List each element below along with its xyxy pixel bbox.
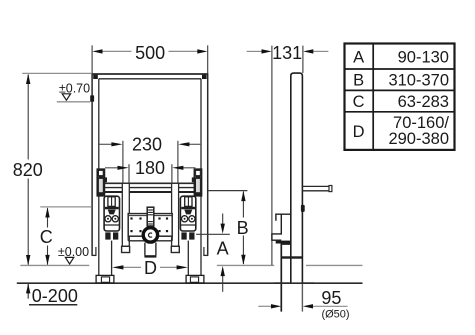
svg-text:C: C bbox=[353, 93, 365, 111]
frame right rail bbox=[207, 73, 209, 255]
svg-text:95: 95 bbox=[321, 288, 341, 308]
side foot tube bbox=[281, 244, 291, 312]
svg-text:B: B bbox=[237, 218, 249, 238]
svg-text:A: A bbox=[217, 239, 229, 259]
plate holes bbox=[130, 217, 168, 232]
drain ring bbox=[143, 228, 157, 242]
svg-text:230: 230 bbox=[132, 135, 162, 155]
svg-text:820: 820 bbox=[13, 160, 43, 180]
dim C ref line bbox=[40, 206, 92, 208]
svg-text:90-130: 90-130 bbox=[398, 48, 449, 66]
wire floor line bbox=[17, 282, 363, 284]
strut right bbox=[172, 183, 179, 246]
dim 180 arrows bbox=[105, 167, 119, 169]
bidet bracket left bbox=[104, 196, 119, 231]
dim 500 ext lines bbox=[91, 45, 93, 73]
dim B line + arrows bbox=[242, 192, 244, 264]
dim 131 line bbox=[247, 50, 263, 52]
svg-text:0-200: 0-200 bbox=[32, 286, 78, 306]
frame top rail bbox=[92, 73, 208, 75]
svg-text:D: D bbox=[144, 258, 157, 278]
side bidet bracket bbox=[272, 214, 291, 240]
svg-text:310-370: 310-370 bbox=[388, 72, 449, 90]
mounting plate bbox=[128, 214, 172, 237]
node ±0.00 finished floor line (right segments) bbox=[217, 264, 274, 266]
svg-text:(Ø50): (Ø50) bbox=[321, 308, 349, 320]
dim 230 ext lines bbox=[122, 141, 124, 183]
dim D line + arrows bbox=[123, 266, 141, 268]
side wall arm bbox=[303, 185, 330, 187]
drain pipe below bbox=[144, 243, 146, 256]
side below-floor pipe right edge bbox=[301, 283, 303, 311]
svg-text:180: 180 bbox=[135, 158, 165, 178]
svg-text:131: 131 bbox=[272, 43, 302, 63]
corner gusset right bbox=[202, 75, 207, 79]
svg-text:500: 500 bbox=[135, 43, 165, 63]
foot tube right bbox=[187, 241, 189, 276]
slotted bracket right bbox=[194, 169, 201, 196]
lower cross rail lines bbox=[99, 182, 201, 184]
dim 0-200 bbox=[27, 284, 29, 299]
dim B top ref line bbox=[208, 190, 248, 192]
svg-text:A: A bbox=[353, 48, 364, 66]
svg-text:290-380: 290-380 bbox=[388, 130, 449, 148]
dim C line bbox=[47, 208, 49, 264]
side front ref line bbox=[271, 46, 273, 265]
svg-text:C: C bbox=[40, 227, 53, 247]
frame left rail bbox=[91, 73, 93, 255]
dim 230 arrows bbox=[100, 143, 113, 145]
foot tube left bbox=[111, 241, 113, 276]
bidet bracket right bbox=[180, 196, 195, 231]
strut left bbox=[122, 183, 129, 246]
dim A upper ref line bbox=[196, 233, 230, 235]
slotted bracket left bbox=[97, 169, 104, 196]
foot plate left bbox=[96, 275, 114, 283]
dim 180 ext lines bbox=[128, 164, 130, 183]
side rail bbox=[291, 73, 303, 283]
dim 820 ext line bbox=[22, 72, 92, 74]
dim 95 bbox=[258, 305, 271, 307]
dim 820 line bbox=[27, 75, 29, 265]
svg-text:D: D bbox=[353, 123, 365, 141]
side 131 right ext bbox=[302, 46, 304, 73]
node ±0.00 finished floor line (left segment) bbox=[20, 264, 89, 266]
threaded rod bbox=[147, 207, 154, 226]
dim 500 line bbox=[102, 50, 132, 52]
side foot cross band bbox=[281, 256, 302, 258]
svg-text:B: B bbox=[353, 72, 364, 90]
wire floor line across side foot bbox=[274, 282, 314, 284]
corner gusset left bbox=[93, 75, 98, 79]
foot plate right bbox=[186, 275, 204, 283]
side clamp dot bbox=[301, 205, 305, 212]
svg-text:63-283: 63-283 bbox=[398, 93, 449, 111]
dim A arrows bbox=[222, 214, 224, 227]
